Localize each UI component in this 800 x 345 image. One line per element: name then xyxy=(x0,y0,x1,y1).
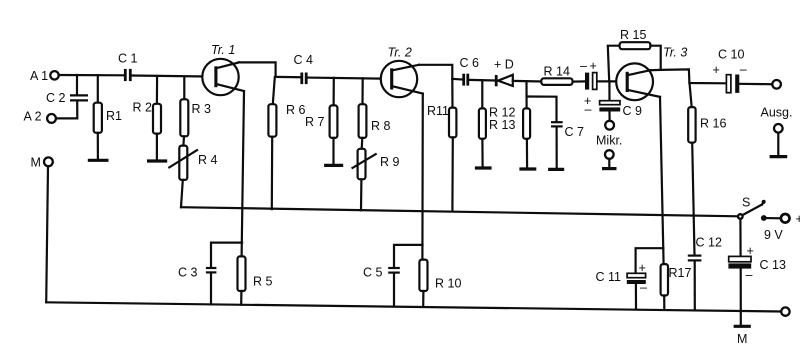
svg-text:A 1: A 1 xyxy=(30,69,48,83)
capacitor C6 xyxy=(460,56,480,86)
wire node to C6 xyxy=(452,78,462,81)
resistor R17 xyxy=(661,264,692,310)
resistor R5 xyxy=(238,256,273,304)
wire diode to R14 xyxy=(513,80,542,83)
wire node to C4 xyxy=(276,76,300,78)
terminal Mikr upper xyxy=(605,121,614,130)
svg-text:R 10: R 10 xyxy=(435,277,461,291)
wire M down to ground bus xyxy=(46,167,48,303)
terminal Ausg upper xyxy=(761,80,793,120)
wire R4 to supply bus xyxy=(181,180,183,207)
svg-text:C 10: C 10 xyxy=(718,48,744,62)
resistor R11 xyxy=(427,79,456,211)
resistor R4 (preset, slash) xyxy=(169,146,217,180)
svg-text:R 16: R 16 xyxy=(700,117,726,131)
ground of R7 xyxy=(324,164,343,167)
wire R16 down to C12 xyxy=(692,143,694,255)
svg-text:R1: R1 xyxy=(106,109,122,123)
resistor R10 xyxy=(419,260,461,307)
svg-text:R 6: R 6 xyxy=(286,103,306,117)
svg-text:+: + xyxy=(747,244,754,258)
svg-text:+: + xyxy=(639,261,646,275)
svg-text:C 2: C 2 xyxy=(46,91,66,105)
terminal ground right xyxy=(781,307,789,315)
diode D xyxy=(494,57,514,86)
wire C4 to Tr.2 base xyxy=(308,78,392,79)
svg-text:R 8: R 8 xyxy=(371,119,391,133)
ground of R1 xyxy=(88,159,109,162)
wire Tr.2 emitter down to R10 xyxy=(421,94,424,260)
svg-text:Mikr.: Mikr. xyxy=(596,134,622,148)
svg-text:R 15: R 15 xyxy=(620,28,646,42)
capacitor C9 xyxy=(584,81,642,120)
wire A1 to C1 xyxy=(59,74,124,77)
wire Tr.3 emitter down to R17 xyxy=(660,97,664,264)
resistor R15 xyxy=(608,28,661,81)
svg-text:R 3: R 3 xyxy=(192,102,212,116)
ground of Ausg lower xyxy=(770,155,788,158)
switch S xyxy=(738,196,767,221)
svg-text:C 7: C 7 xyxy=(565,125,585,139)
wire R8 to R9 xyxy=(361,138,364,149)
resistor R1 xyxy=(94,75,122,159)
resistor R14 xyxy=(541,64,572,85)
ground of R13 xyxy=(519,167,536,170)
svg-text:S: S xyxy=(742,196,750,210)
transistor Tr.2 xyxy=(381,46,423,98)
svg-text:C 9: C 9 xyxy=(623,104,643,118)
terminal Mikr lower xyxy=(605,150,614,167)
svg-text:C 3: C 3 xyxy=(178,266,198,280)
terminal Ausg lower xyxy=(774,124,783,155)
wire Tr.2 collector to node xyxy=(419,65,452,79)
capacitor C13 xyxy=(728,244,786,282)
capacitor C10 xyxy=(713,48,747,93)
svg-text:C 5: C 5 xyxy=(363,266,383,280)
resistor R6 xyxy=(268,77,305,209)
capacitor C7 xyxy=(551,122,584,168)
ground of R12 xyxy=(475,166,492,169)
svg-text:–: – xyxy=(640,281,647,295)
terminal A1 xyxy=(30,69,59,83)
terminal A2 xyxy=(24,110,56,124)
transistor Tr.3 xyxy=(616,46,687,101)
svg-text:R 2: R 2 xyxy=(133,101,153,115)
wire R9 to supply bus xyxy=(360,179,363,210)
wire C1 to Tr.1 base xyxy=(132,76,216,77)
ground M bottom xyxy=(734,326,751,345)
svg-text:R 14: R 14 xyxy=(544,64,570,78)
svg-text:+: + xyxy=(796,212,800,226)
wire switch to battery terminal xyxy=(767,217,780,219)
resistor R8 xyxy=(359,78,391,138)
svg-text:Tr. 2: Tr. 2 xyxy=(388,46,412,60)
svg-text:9 V: 9 V xyxy=(764,228,783,242)
resistor R3 xyxy=(180,77,211,137)
svg-text:–: – xyxy=(746,268,753,282)
capacitor C1 xyxy=(118,52,138,82)
svg-text:+: + xyxy=(590,59,597,73)
svg-text:R 4: R 4 xyxy=(198,153,218,167)
svg-text:+: + xyxy=(713,63,720,77)
capacitor C4 xyxy=(294,53,314,84)
svg-text:C 11: C 11 xyxy=(596,270,622,284)
capacitor C8 (electrolytic, unlabeled) xyxy=(580,59,597,90)
wire R3 to R4 xyxy=(182,136,185,145)
ground of Mikr lower xyxy=(602,167,617,170)
svg-text:Ausg.: Ausg. xyxy=(761,106,793,120)
svg-text:Tr. 1: Tr. 1 xyxy=(211,43,235,57)
svg-text:A 2: A 2 xyxy=(24,110,42,124)
capacitor C2 xyxy=(46,75,88,105)
wire R14 to C8 xyxy=(573,80,585,82)
transistor Tr.1 xyxy=(202,43,244,95)
terminal 9V plus xyxy=(764,212,800,242)
svg-text:C 6: C 6 xyxy=(460,56,480,70)
ground of R2 xyxy=(147,159,167,162)
wire C10 to Ausg xyxy=(739,83,771,86)
svg-text:C 12: C 12 xyxy=(696,236,722,250)
capacitor C5 xyxy=(363,245,423,307)
svg-text:R 7: R 7 xyxy=(305,115,325,129)
svg-text:–: – xyxy=(740,63,747,77)
wire Tr.3 collector to C10 xyxy=(651,69,726,83)
ground bus (bottom rail) xyxy=(46,302,781,311)
supply bus (middle rail) xyxy=(181,207,738,216)
wire switch node down to C13 xyxy=(739,219,741,256)
resistor R16 xyxy=(688,83,726,143)
capacitor C12 xyxy=(688,236,722,311)
resistor R7 xyxy=(305,78,337,164)
resistor R12 xyxy=(479,80,516,166)
resistor R13 xyxy=(489,81,530,167)
svg-text:C 4: C 4 xyxy=(294,53,314,67)
svg-text:R11: R11 xyxy=(427,104,449,118)
wire branch to C7 xyxy=(527,97,557,121)
wire C2 to A2 xyxy=(56,102,77,119)
svg-text:M: M xyxy=(31,156,41,170)
svg-text:Tr. 3: Tr. 3 xyxy=(663,46,687,60)
terminal M left xyxy=(31,156,53,170)
wire C13 down to M ground xyxy=(740,269,742,325)
resistor R9 (preset, slash) xyxy=(353,149,400,180)
capacitor C3 xyxy=(178,243,242,305)
capacitor C11 xyxy=(596,248,664,309)
wire C6 to diode D xyxy=(469,79,495,82)
wire Tr.1 collector to node xyxy=(239,62,276,77)
svg-text:–: – xyxy=(580,59,587,73)
svg-text:R17: R17 xyxy=(669,266,692,280)
wire Tr.1 emitter down to R5 xyxy=(242,91,244,256)
svg-text:R 5: R 5 xyxy=(253,275,273,289)
svg-text:R 9: R 9 xyxy=(380,155,400,169)
svg-text:C 13: C 13 xyxy=(760,258,786,272)
svg-text:R 13: R 13 xyxy=(489,118,515,132)
wire C8 to Tr.3 base xyxy=(597,80,627,82)
svg-text:+ D: + D xyxy=(494,57,514,71)
resistor R2 xyxy=(133,76,162,160)
svg-text:–: – xyxy=(585,103,592,117)
svg-text:C 1: C 1 xyxy=(118,52,138,66)
ground of C7 xyxy=(548,168,564,171)
svg-text:M: M xyxy=(737,332,747,345)
